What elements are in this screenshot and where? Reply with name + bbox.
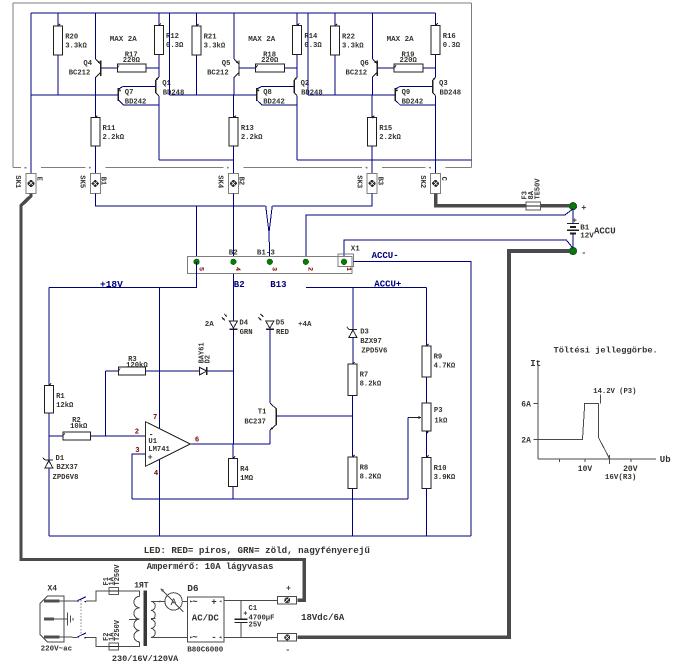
wire B1 drop to connector pin 5 [196,206,198,262]
svg-text:0.3Ω: 0.3Ω [443,42,461,50]
svg-text:BC237: BC237 [244,418,266,426]
svg-text:RED: RED [276,329,290,337]
svg-text:Ampermérő: 10A lágyvasas: Ampermérő: 10A lágyvasas [147,562,274,572]
svg-text:Q4: Q4 [83,60,92,68]
svg-text:3.3kΩ: 3.3kΩ [65,43,87,51]
transformer TR1 primary winding [134,596,140,607]
wire op-amp output pin 6 [191,443,271,445]
wire E-net drop to Q9 base rail [307,13,309,95]
svg-text:BD242: BD242 [125,99,147,107]
potentiometer P3 1k [422,403,431,431]
thick wire C output from SK2 to fuse F3 [436,194,570,206]
svg-text:3.9KΩ: 3.9KΩ [434,474,456,482]
capacitor C1 4700uF [240,601,242,620]
svg-text:+: + [581,203,586,213]
wire B3 from SK3 [272,194,372,206]
resistor R17 220 ohm [113,67,117,69]
resistor R22 3.3k [334,13,336,26]
bridge pin arrows [190,600,193,602]
resistor R18 220 ohm [251,67,255,69]
resistor R7 8.2k [348,364,357,395]
wire switch to F1 [86,591,109,601]
wire D3 to R7 [352,338,354,365]
resistor R19 220 ohm [390,67,394,69]
graph charging curve [538,404,610,459]
wire 0V rail (bottom of control section) [49,535,471,537]
svg-text:MAX 2A: MAX 2A [110,36,138,44]
switch blade top [76,597,86,602]
wire base rail of Q7 [31,94,118,96]
bridge rectifier D6 box [188,597,224,642]
svg-text:BD242: BD242 [402,99,424,107]
svg-text:Ub: Ub [660,455,671,465]
svg-text:Q1: Q1 [162,80,171,88]
wire P3 to R10 [425,431,427,458]
thick wire E output from SK1 to PSU + [21,194,304,601]
transformer secondary winding [151,601,156,610]
svg-text:18Vdc/6A: 18Vdc/6A [301,613,345,623]
wire P3 wiper to feedback [407,418,409,500]
svg-text:7: 7 [153,414,157,422]
svg-text:3.3kΩ: 3.3kΩ [342,43,364,51]
svg-text:R15: R15 [379,125,392,133]
svg-text:X1: X1 [351,245,361,253]
svg-text:BD248: BD248 [163,89,185,97]
svg-text:14.2V (P3): 14.2V (P3) [593,388,636,396]
transistor Q5 BC212 [233,13,235,59]
svg-text:R22: R22 [342,34,355,42]
svg-text:P3: P3 [434,407,443,415]
svg-text:1ЯT: 1ЯT [134,581,149,590]
svg-text:2.2kΩ: 2.2kΩ [103,134,125,142]
resistor R13 2.2k [233,95,235,118]
connector pin 4 (green dot) [231,259,236,264]
wire battery minus sense to X1 pin1 [344,240,573,262]
svg-text:R9: R9 [434,354,443,362]
connector pin 5 (green dot) [194,259,199,264]
svg-text:R14: R14 [304,33,318,41]
svg-text:230/16V/120VA: 230/16V/120VA [112,654,179,664]
wire emitter bus block1 to B2 node [159,159,234,161]
mains plug X4 [40,596,64,642]
battery B1 12V ACCU [572,210,574,224]
resistor R15 2.2k [371,95,373,118]
svg-text:BC212: BC212 [69,69,91,77]
svg-text:4: 4 [154,470,159,478]
wire base rail of Q9 [308,94,395,96]
wire bridge + to output [224,600,278,602]
wire ammeter to bridge [182,600,187,602]
transistor Q2 BD248 [293,80,295,93]
resistor R20 3.3k [57,13,59,26]
wire op-amp pin 4 to 0V [159,460,161,537]
wire emitter bus blocks2-3 to frame [297,159,471,161]
svg-text:B1: B1 [99,177,107,186]
wire secondary to ammeter [151,600,166,602]
resistor R16 0.3 ohm [435,13,437,25]
svg-text:ACCU: ACCU [594,226,616,236]
zener diode D3 BZX97 ZPD5V6 [349,329,357,331]
svg-text:-: - [581,248,586,258]
svg-text:R10: R10 [434,465,447,473]
svg-text:SK4: SK4 [216,175,224,189]
transformer core [143,590,147,646]
svg-text:2.2kΩ: 2.2kΩ [241,134,263,142]
svg-text:BD242: BD242 [263,99,285,107]
ammeter A [165,593,182,610]
svg-text:B2: B2 [237,177,245,186]
svg-text:2: 2 [135,428,139,436]
svg-text:4: 4 [233,267,241,271]
connector pin 2 (green dot) [303,259,308,264]
svg-text:+18V: +18V [100,279,123,290]
svg-text:10V: 10V [578,465,593,474]
terminal SK3 (B3) [367,174,377,194]
svg-text:~: ~ [192,597,197,607]
svg-text:10kΩ: 10kΩ [70,423,88,431]
svg-text:GRN: GRN [240,329,253,337]
transistor Q1 BD248 [155,80,157,93]
wire ACCU+ branch to D3 [352,287,354,329]
transistor Q9 BD242 [394,88,396,101]
svg-text:Töltési jelleggörbe.: Töltési jelleggörbe. [554,345,658,355]
svg-text:2A: 2A [521,437,531,446]
svg-text:R13: R13 [241,125,254,133]
svg-text:Q3: Q3 [439,80,448,88]
op-amp U1 LM741 [146,422,191,466]
svg-text:-: - [285,646,290,655]
fuse F2 [109,643,118,650]
transistor T1 BC237 [270,403,276,409]
svg-text:R7: R7 [360,372,369,380]
wire plug to switch top [60,600,77,602]
terminal SK5 (B1) [90,174,100,194]
svg-text:SK2: SK2 [418,175,426,188]
svg-text:D3: D3 [360,328,369,336]
svg-text:16V(R3): 16V(R3) [605,474,637,482]
resistor R11 2.2k [94,95,96,118]
resistor R8 8.2K [351,488,353,536]
svg-text:AC/DC: AC/DC [192,614,220,624]
graph axis Ub (x) [538,458,656,460]
thick wire battery minus to PSU - [298,251,570,637]
terminal SK4 (B2) [228,174,238,194]
svg-text:B3: B3 [375,177,383,186]
svg-text:220V~ac: 220V~ac [41,646,73,654]
svg-text:R16: R16 [443,33,456,41]
svg-text:220Ω: 220Ω [123,57,141,65]
resistor R1 12k [44,386,53,413]
svg-text:Q6: Q6 [360,60,369,68]
svg-text:1kΩ: 1kΩ [434,417,448,425]
wire Q3 emitter column to SK2 [435,160,437,174]
svg-text:1MΩ: 1MΩ [240,475,254,483]
resistor R9 4.7K [425,377,427,403]
svg-text:MAX 2A: MAX 2A [248,36,276,44]
wire top bus (E net) [31,12,436,14]
resistor R21 3.3k [195,13,197,26]
graph axis It (y) [537,364,539,459]
svg-text:+: + [243,610,247,618]
transformer primary tap arrow [129,618,137,620]
diode D2 BAY61 [199,367,207,375]
wire B13 line below D5 to T1 collector [269,329,271,403]
wire left rail (+18V down to 0V rail) [48,287,50,536]
resistor R14 0.3 ohm [296,13,298,25]
svg-text:Q5: Q5 [222,60,231,68]
svg-text:12V: 12V [580,233,594,241]
terminal SK1 (E) [26,174,36,194]
svg-text:BD248: BD248 [301,89,323,97]
svg-text:BZX97: BZX97 [360,338,382,346]
enclosure frame of charger output stage [13,2,471,4]
svg-text:SK1: SK1 [13,175,21,189]
frame bottom edge with terminal centerline gaps [13,167,21,169]
transistor Q4 BC212 [95,13,97,59]
svg-text:D6: D6 [187,583,199,594]
LED D5 red on B1-3 line [266,321,274,328]
transistor Q7 BD242 [117,88,119,101]
svg-text:B80C6000: B80C6000 [187,646,224,654]
svg-text:TE50V: TE50V [535,178,543,200]
svg-text:5: 5 [196,267,204,271]
node battery plus (green) [570,203,577,210]
wire E-net drop to Q7 base rail [30,13,32,174]
wire non-inverting input pin 3 [132,454,145,499]
fuse F3 [526,202,540,210]
svg-text:+: + [148,453,153,462]
svg-text:~: ~ [192,633,197,643]
svg-text:+: + [573,217,577,225]
switch linkage [80,600,82,636]
svg-text:LM741: LM741 [148,446,170,454]
zener diode D1 BZX37 ZPD6V8 [45,459,53,461]
svg-text:12kΩ: 12kΩ [56,402,74,410]
svg-text:20V: 20V [623,465,638,474]
transistor Q6 BC212 [372,13,374,59]
svg-text:MAX 2A: MAX 2A [387,36,415,44]
resistor R12 0.3 ohm [158,13,160,25]
svg-text:ZPD6V8: ZPD6V8 [53,474,79,482]
svg-text:Q9: Q9 [402,89,411,97]
graph x ticks [558,459,560,462]
svg-text:C1: C1 [249,605,258,613]
svg-text:R12: R12 [166,33,179,41]
svg-text:R1: R1 [56,393,65,401]
svg-text:8.2kΩ: 8.2kΩ [360,381,382,389]
svg-text:220Ω: 220Ω [400,57,418,65]
svg-text:Q7: Q7 [125,89,134,97]
svg-text:R4: R4 [240,466,249,474]
svg-text:R21: R21 [204,34,218,42]
svg-text:120kΩ: 120kΩ [126,362,148,370]
earth ground symbol [54,618,68,620]
wire R3 to inverting input [105,371,107,436]
svg-text:It: It [530,359,541,369]
wire feedback line to P3 wiper [132,498,408,500]
svg-text:ACCU+: ACCU+ [374,280,401,290]
node battery minus (green) [570,248,577,255]
transistor Q8 BD242 [256,88,258,101]
svg-text:ACCU-: ACCU- [372,251,399,261]
output terminal + screw [278,597,297,604]
svg-text:D1: D1 [56,455,65,463]
fuse F1 [109,588,118,595]
wire secondary bottom to bridge [151,636,188,638]
svg-text:4.7KΩ: 4.7KΩ [434,363,456,371]
svg-text:+: + [286,585,291,594]
wire base rail of Q8 [169,94,256,96]
svg-text:SK5: SK5 [78,175,86,188]
svg-text:B2: B2 [234,280,245,290]
wire plug to switch bottom [60,636,77,638]
svg-text:R11: R11 [103,125,117,133]
wire R7 to R8 junction (T1 base) [351,396,353,457]
connector pin 3 (green dot) [267,259,272,264]
svg-text:2.2kΩ: 2.2kΩ [379,134,401,142]
svg-text:3.3kΩ: 3.3kΩ [204,43,226,51]
svg-text:SK3: SK3 [354,175,362,188]
wire switch to F2 [86,637,109,646]
svg-text:BC212: BC212 [346,69,368,77]
svg-text:B1: B1 [580,225,590,233]
svg-text:D4: D4 [239,320,248,328]
svg-text:2: 2 [306,267,314,271]
graph 16V marker [609,455,611,464]
svg-text:R20: R20 [65,34,78,42]
svg-text:LED: RED= piros, GRN= zöld, na: LED: RED= piros, GRN= zöld, nagyfényerej… [144,545,371,556]
resistor R4 1M [232,444,234,459]
wire battery plus sense to X1 pin2 [306,209,573,262]
svg-text:T1: T1 [258,409,267,417]
svg-text:220Ω: 220Ω [261,57,279,65]
svg-text:-: - [211,633,216,643]
resistor R10 3.9K [425,488,427,536]
svg-text:3: 3 [270,267,278,271]
wire op-amp supply pin 7 from +18V [159,287,161,428]
svg-text:Q8: Q8 [263,89,272,97]
wire B1-3 merge funnel [266,206,273,233]
resistor R3 120k [106,370,119,372]
connector pin 1 (green dot) [341,259,346,264]
wire ACCU+ rail from pin 2 [306,286,427,288]
svg-text:X4: X4 [48,584,58,593]
svg-text:T250V: T250V [114,619,122,641]
svg-text:0.3Ω: 0.3Ω [304,42,322,50]
svg-text:+: + [211,597,216,607]
connector X1 outline around pin 1 [338,254,354,266]
wire ACCU+ to R9 [425,287,427,346]
wire bridge - to output [224,636,278,638]
wire B1 from SK5 [95,194,265,206]
svg-text:T250V: T250V [114,564,122,586]
wire E-net drop to Q8 base rail [168,13,170,95]
svg-text:BC212: BC212 [207,69,229,77]
svg-text:ZPD5V6: ZPD5V6 [361,348,387,356]
svg-text:R8: R8 [360,465,369,473]
output terminal - screw [278,634,297,641]
wire B2 line below D4 [232,329,234,444]
resistor R2 10k [49,435,63,437]
svg-text:1: 1 [344,267,352,271]
svg-text:2A: 2A [205,321,215,329]
wire +18V rail from pin 5 [49,262,197,288]
svg-text:+4A: +4A [298,321,312,329]
svg-text:BD248: BD248 [440,89,462,97]
graph tick 2A [534,438,539,440]
svg-text:25V: 25V [249,622,263,630]
svg-text:BAY61: BAY61 [198,342,206,363]
wire F1 to primary [118,591,139,596]
svg-text:0.3Ω: 0.3Ω [166,42,184,50]
wire F2 to primary [118,642,139,646]
svg-text:E: E [34,177,42,182]
switch blade bottom [76,633,86,638]
terminal SK2 (C) [431,174,441,194]
svg-text:C: C [439,177,447,182]
wire B2 from SK4 to pin 4 and LED D4 [232,194,234,322]
graph tick 6A [534,403,539,405]
svg-text:BZX37: BZX37 [56,464,78,472]
svg-text:D5: D5 [276,320,285,328]
svg-text:B13: B13 [270,280,286,290]
LED D4 green on B2 line [229,321,237,328]
transistor Q3 BD248 [432,80,434,93]
wire ACCU- from X1 to control board [354,261,471,536]
transformer secondary tap stub [151,618,156,620]
svg-text:6A: 6A [521,401,531,410]
svg-text:8.2KΩ: 8.2KΩ [360,474,382,482]
connector strip (terminal block) [188,257,352,274]
